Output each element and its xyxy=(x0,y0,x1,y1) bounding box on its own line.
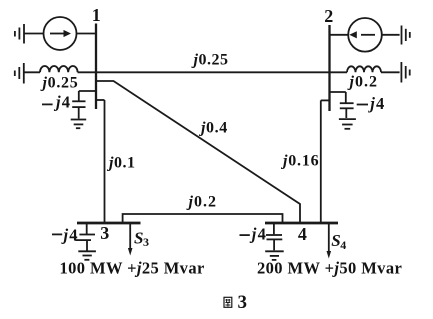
svg-text:3: 3 xyxy=(100,223,109,243)
svg-text:1: 1 xyxy=(92,5,101,25)
svg-text:100 MW +j25 Mvar: 100 MW +j25 Mvar xyxy=(60,259,205,278)
svg-text:j0.1: j0.1 xyxy=(106,155,135,172)
svg-text:j0.2: j0.2 xyxy=(347,74,378,91)
svg-text:j4: j4 xyxy=(61,226,79,245)
svg-text:j0.25: j0.25 xyxy=(40,75,79,92)
svg-text:j0.25: j0.25 xyxy=(191,52,229,69)
svg-text:3: 3 xyxy=(238,292,248,313)
svg-text:4: 4 xyxy=(298,224,307,244)
svg-text:4: 4 xyxy=(340,238,346,252)
svg-text:j4: j4 xyxy=(53,93,71,112)
svg-text:3: 3 xyxy=(143,235,149,249)
svg-text:j4: j4 xyxy=(249,224,267,243)
svg-text:j0.2: j0.2 xyxy=(186,193,217,210)
svg-text:j0.16: j0.16 xyxy=(280,153,319,170)
svg-text:200 MW +j50 Mvar: 200 MW +j50 Mvar xyxy=(257,259,402,278)
svg-text:j4: j4 xyxy=(367,94,385,113)
svg-text:j0.4: j0.4 xyxy=(198,120,228,137)
svg-text:2: 2 xyxy=(324,6,333,26)
